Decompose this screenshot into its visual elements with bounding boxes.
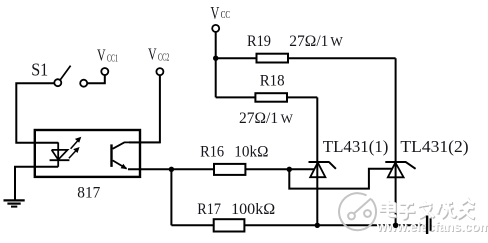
TL431(1) cathode bar and ref tick (309, 162, 336, 169)
watermark text 电子发烧友 shadow (382, 200, 476, 219)
ground (4, 200, 25, 206)
junction TL431(2) anode on rail (393, 223, 398, 228)
watermark text 电子发烧友 face (381, 199, 475, 218)
resistor R19 (257, 54, 289, 63)
wire switch contact to Vcc1 terminal (87, 75, 105, 83)
TL431(1) cathode-anode vertical (316, 97, 318, 225)
junction TL431(2) anode redrawn (393, 223, 398, 228)
wire R18 to TL431(1) cathode (287, 96, 317, 98)
terminal Vcc (212, 25, 219, 32)
svg-text:www.elecfans.com: www.elecfans.com (376, 219, 488, 234)
wire Vcc to R18 (216, 96, 256, 98)
wire node A down to rail (170, 169, 172, 225)
svg-text:TL431(2): TL431(2) (400, 137, 468, 156)
optocoupler U1 817 body (35, 130, 140, 177)
wire Vcc2 to collector (129, 75, 160, 142)
terminal circle S1 throw (80, 80, 87, 87)
LED D1 inside 817 (50, 142, 70, 166)
svg-text:R19: R19 (247, 33, 271, 50)
svg-text:27Ω/1W: 27Ω/1W (239, 110, 294, 127)
resistor R17 (214, 219, 245, 231)
svg-text:100kΩ: 100kΩ (231, 201, 275, 218)
TL431(2) triangle (388, 163, 404, 178)
TL431(1) triangle (310, 163, 325, 178)
switch S1 lever (60, 66, 70, 80)
wire LED cathode to ground (15, 167, 58, 200)
terminal Vcc2 (156, 68, 163, 75)
resistor R16 (214, 164, 245, 175)
wire node B to TL431(2) ref (289, 169, 394, 189)
capacitor C1 plates (426, 216, 428, 235)
junction node A (169, 167, 174, 172)
svg-text:817: 817 (77, 184, 100, 201)
resistor R18 (255, 93, 287, 102)
svg-text:R18: R18 (260, 72, 285, 89)
terminal circle S1 pole (54, 79, 61, 86)
phototransistor Q1 inside 817 (112, 142, 161, 169)
junction TL431(1) anode on rail (315, 223, 320, 228)
svg-text:TL431(1): TL431(1) (323, 137, 389, 156)
wire Vcc vertical (215, 32, 217, 98)
wire R19 to TL431(2) cathode (288, 57, 396, 59)
wire Vcc to R19 (216, 57, 257, 59)
junction dot Vcc/R19 (213, 56, 218, 61)
terminal Vcc1 (101, 68, 108, 75)
svg-text:R16: R16 (200, 144, 224, 161)
LED emission arrows (69, 137, 81, 159)
TL431(2) cathode-anode vertical (395, 58, 397, 225)
svg-text:10kΩ: 10kΩ (234, 144, 268, 161)
wire S1 to LED anode (16, 83, 58, 143)
svg-text:R17: R17 (197, 201, 221, 218)
watermark logo circle (339, 193, 376, 230)
junction node B (287, 167, 292, 172)
svg-text:27Ω/1W: 27Ω/1W (289, 33, 343, 50)
wire emitter to R16 and node A (128, 168, 316, 170)
TL431(2) cathode bar and ref tick (385, 162, 415, 169)
wire bottom rail (171, 224, 425, 226)
svg-text:S1: S1 (31, 59, 48, 79)
